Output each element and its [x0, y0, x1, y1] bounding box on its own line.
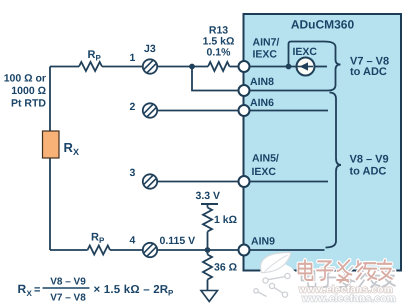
svg-text:J3: J3: [144, 43, 156, 55]
svg-text:R: R: [64, 140, 74, 155]
svg-text:AIN5/: AIN5/: [252, 153, 279, 165]
svg-text:AIN9: AIN9: [251, 236, 275, 248]
svg-text:3: 3: [130, 167, 136, 179]
svg-text:R: R: [91, 232, 99, 244]
svg-text:1: 1: [130, 52, 136, 64]
svg-text:0.115 V: 0.115 V: [160, 235, 196, 247]
svg-text:1 kΩ: 1 kΩ: [214, 214, 237, 226]
svg-text:IEXC: IEXC: [252, 166, 277, 178]
svg-text:R: R: [88, 49, 96, 61]
svg-text:P: P: [168, 289, 174, 298]
svg-text:4: 4: [130, 235, 136, 247]
svg-text:100 Ω or: 100 Ω or: [4, 73, 46, 85]
svg-text:to ADC: to ADC: [350, 166, 387, 178]
svg-text:Pt RTD: Pt RTD: [11, 98, 46, 110]
svg-text:AIN7/: AIN7/: [253, 37, 280, 49]
svg-text:X: X: [27, 289, 33, 298]
svg-text:IEXC: IEXC: [293, 46, 318, 58]
svg-text:V8 – V9: V8 – V9: [350, 154, 389, 166]
svg-text:36 Ω: 36 Ω: [214, 262, 237, 274]
svg-text:3.3 V: 3.3 V: [196, 190, 221, 202]
svg-text:IEXC: IEXC: [253, 49, 278, 61]
svg-text:www.elecfans.com: www.elecfans.com: [301, 294, 396, 305]
svg-text:ADuCM360: ADuCM360: [291, 18, 355, 32]
svg-text:to ADC: to ADC: [350, 66, 387, 78]
svg-text:× 1.5 kΩ – 2R: × 1.5 kΩ – 2R: [94, 284, 169, 296]
svg-text:P: P: [96, 54, 102, 63]
svg-text:V8 – V9: V8 – V9: [50, 277, 86, 288]
svg-text:0.1%: 0.1%: [207, 47, 232, 59]
svg-text:AIN8: AIN8: [250, 76, 274, 88]
svg-text:R: R: [18, 282, 27, 296]
svg-text:1000 Ω: 1000 Ω: [11, 85, 46, 97]
svg-text:AIN6: AIN6: [250, 97, 274, 109]
svg-text:X: X: [73, 147, 79, 157]
svg-text:P: P: [99, 236, 105, 245]
svg-text:=: =: [34, 284, 40, 296]
svg-text:V7 – V8: V7 – V8: [50, 293, 86, 304]
svg-text:2: 2: [130, 101, 136, 113]
